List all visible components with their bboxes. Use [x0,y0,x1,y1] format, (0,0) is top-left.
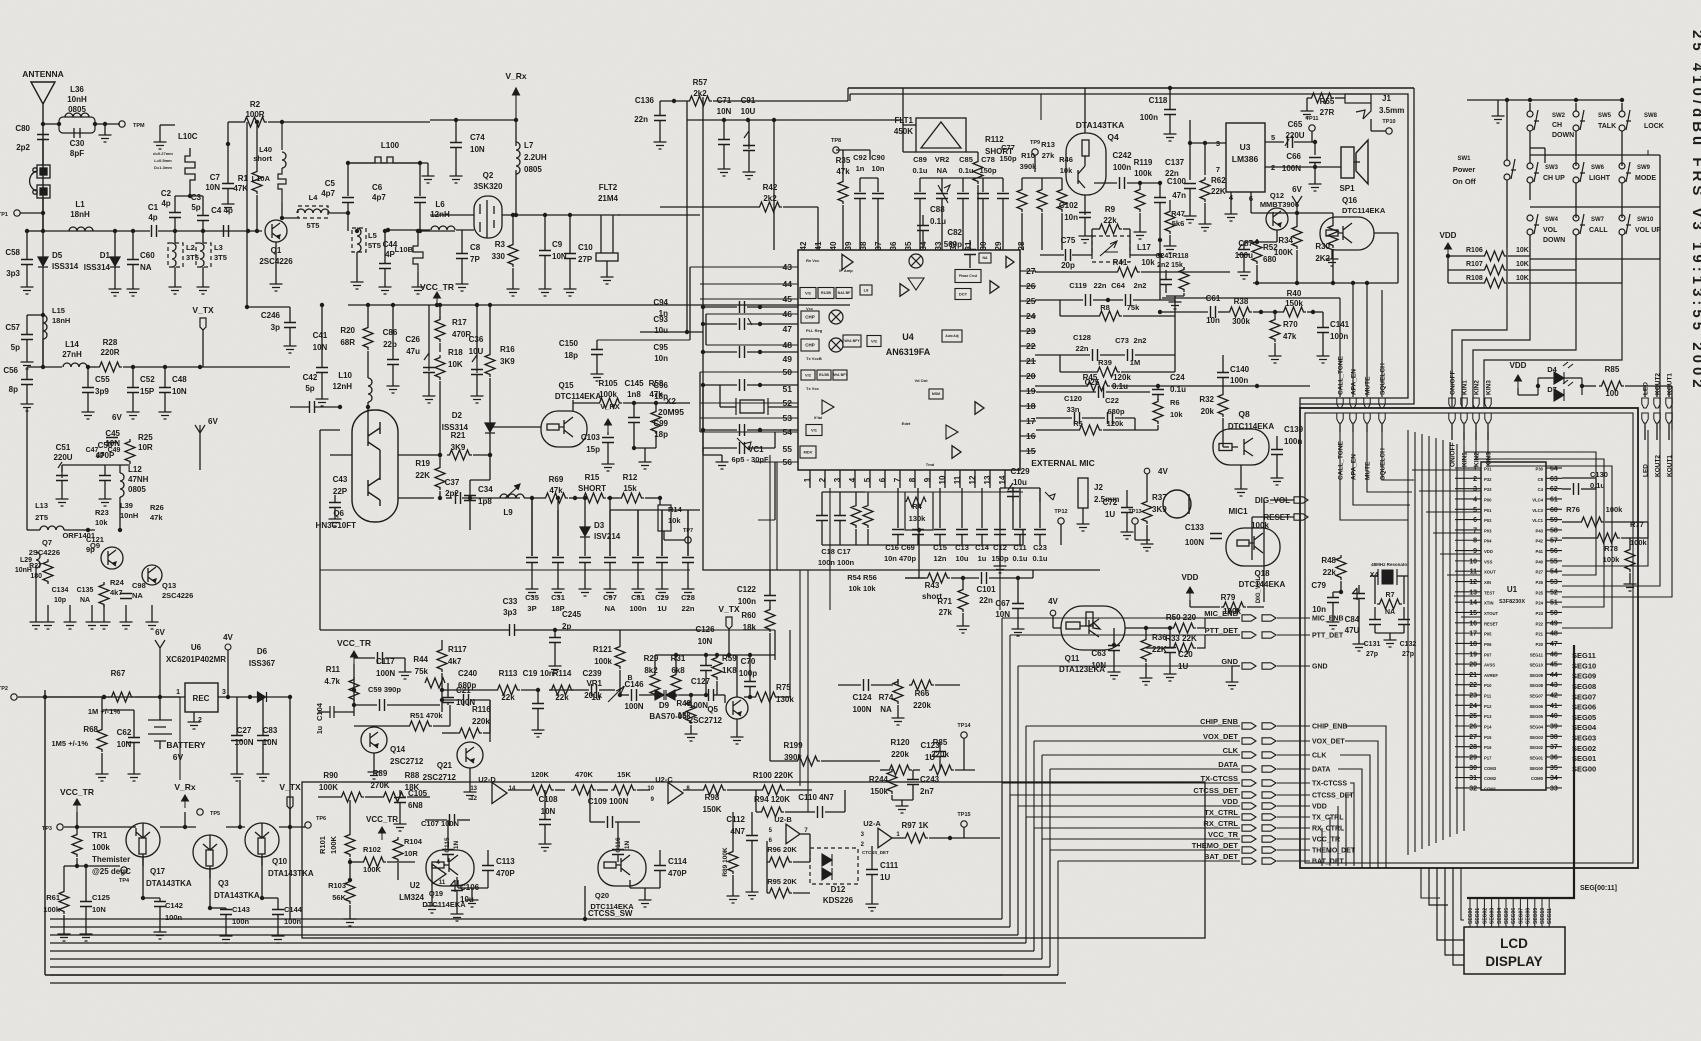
wire riser [1041,839,1043,959]
svg-text:6k8: 6k8 [671,666,685,675]
svg-text:P11: P11 [1484,694,1492,699]
wire [700,417,798,419]
wire [554,630,556,637]
wire [963,827,965,838]
resistor R244 [887,769,897,794]
svg-text:C143: C143 [232,905,250,914]
svg-text:100n: 100n [1330,332,1348,341]
svg-text:680p: 680p [458,681,476,690]
svg-text:C97: C97 [603,593,617,602]
transistor Q19 [426,850,474,886]
wire bundle [1442,440,1444,840]
svg-text:SEG01: SEG01 [1572,754,1596,763]
wire [1190,606,1220,608]
wire [654,694,656,696]
svg-text:57: 57 [1550,538,1558,545]
wire [87,367,89,387]
capacitor C101 [982,572,987,584]
svg-text:50: 50 [1550,610,1558,617]
svg-text:R114: R114 [553,669,572,678]
wire [42,283,44,365]
wire [1455,653,1481,655]
capacitor C83 [257,736,269,741]
svg-text:LM324: LM324 [399,893,424,902]
capacitor C79 [1327,598,1339,603]
wire [1529,235,1531,252]
svg-text:Q15: Q15 [558,381,574,390]
wire [1659,155,1661,259]
svg-text:SEG11: SEG11 [1530,652,1544,657]
amp tri [908,278,924,290]
wire [43,230,150,232]
svg-text:C28: C28 [681,593,695,602]
wire top bus [848,87,1414,89]
wire [962,613,964,622]
wire [128,826,136,828]
resistor R95 [767,888,792,898]
wire [797,313,799,315]
svg-text:100k: 100k [594,657,612,666]
svg-text:10R: 10R [138,443,153,452]
wire [1082,417,1105,419]
wire [1332,213,1334,223]
wire [716,654,718,656]
wire [1455,715,1481,717]
svg-text:19: 19 [1469,651,1477,658]
wire [69,605,71,618]
wire [1332,592,1334,597]
capacitor C35 [526,558,538,563]
resistor R58 [651,409,661,434]
wire signal [1058,860,1240,862]
connector VDD [1242,803,1256,809]
wire [703,447,737,449]
wire [1251,212,1277,214]
svg-text:2p2: 2p2 [445,489,459,498]
wire [1537,385,1539,387]
wire [349,858,351,880]
ground [1327,618,1340,629]
svg-text:10u: 10u [1013,478,1027,487]
resistor R57 [687,96,712,106]
wire SEG drop [1483,898,1485,927]
connector KIN1 [1461,398,1467,408]
wire [135,696,185,698]
svg-text:SEG05: SEG05 [1529,714,1543,719]
svg-text:C243: C243 [920,775,940,784]
wire [334,495,336,502]
wire [989,577,1033,579]
wire [609,563,611,585]
svg-text:SEG01: SEG01 [1529,755,1543,760]
wire [1277,768,1310,770]
wire [1053,627,1061,629]
wire [490,426,541,428]
svg-text:10k 10k: 10k 10k [848,584,876,593]
wire bundle [1428,436,1430,846]
capacitor C37 [456,492,461,504]
wire [675,694,677,696]
ground [379,283,392,294]
wire [1218,311,1227,313]
wire [508,789,529,791]
wire [1307,97,1309,99]
wire [367,402,369,430]
wire [1546,539,1562,541]
ground [220,932,233,943]
svg-text:GND: GND [1312,664,1328,671]
svg-text:Q3: Q3 [218,879,229,888]
switch SW3 [1527,162,1539,183]
svg-text:C90: C90 [871,153,885,162]
wire [1022,177,1062,179]
svg-text:C81: C81 [631,593,645,602]
svg-text:L10B: L10B [395,245,414,254]
wire signal [1018,665,1240,667]
svg-text:L6: L6 [435,200,445,209]
wire [1059,355,1061,372]
svg-text:C124: C124 [852,693,872,702]
wire [999,545,1001,562]
wire [610,789,612,791]
svg-text:R1/2B: R1/2B [821,291,831,295]
svg-text:100n: 100n [629,604,647,613]
wire [1546,570,1562,572]
svg-text:SW8: SW8 [1644,113,1658,119]
wire [1189,120,1191,143]
svg-text:LOCK: LOCK [1644,123,1664,130]
wire [659,850,661,865]
svg-text:P43: P43 [1536,528,1544,533]
connector CALL_TONE [1337,398,1343,408]
capacitor C19 [532,704,544,709]
svg-text:R107: R107 [1466,261,1483,268]
svg-text:Rx Vcc: Rx Vcc [806,258,820,263]
capacitor C116 [612,850,624,855]
wire [640,331,703,333]
svg-text:120k: 120k [1113,373,1131,382]
wire [1000,487,1040,489]
ground [1271,474,1284,485]
wire [549,689,575,691]
resistor R101 [345,832,355,857]
regulator U6 REC [185,683,218,712]
svg-text:P26: P26 [1536,580,1544,585]
transistor Q9 [101,547,123,569]
wire [286,230,288,232]
wire [1231,666,1233,678]
wire [87,393,89,408]
wire [1247,606,1264,608]
wire [26,408,28,530]
inductor L3 [196,243,211,267]
svg-text:PTT_DET: PTT_DET [1205,626,1239,635]
wire [164,393,166,408]
wire [766,841,768,862]
svg-text:C144: C144 [284,905,303,914]
svg-text:100k: 100k [1603,555,1621,564]
wire [821,760,880,762]
connector CTCSS_DET mate [1262,792,1276,798]
wire [747,429,798,431]
svg-text:P01: P01 [1484,508,1492,513]
wire [447,855,449,862]
svg-text:1u: 1u [978,554,987,563]
wire [1455,550,1481,552]
capacitor C124 [864,679,869,691]
wire [822,491,865,493]
wire [754,461,798,463]
wire [955,769,975,771]
svg-text:36: 36 [1550,754,1558,761]
wire [26,315,28,334]
svg-text:C84: C84 [1345,615,1360,624]
svg-text:27k: 27k [939,608,953,617]
wire DATA route [1338,769,1362,868]
svg-text:C75: C75 [1061,236,1076,245]
svg-text:CTCSS_DET: CTCSS_DET [1193,786,1238,795]
wire [104,465,106,475]
connector PTT_DET [1242,632,1256,638]
wire [102,709,134,711]
wire [1529,103,1531,111]
svg-text:6V: 6V [208,417,218,426]
wire [18,696,45,698]
wire [944,470,946,488]
svg-text:P23: P23 [1536,611,1544,616]
wire [1487,423,1489,440]
svg-text:P05: P05 [1484,632,1492,637]
ground [549,662,562,673]
wire [159,124,161,126]
svg-text:L14: L14 [65,340,79,349]
resistor R35 [838,179,848,204]
svg-text:3p9: 3p9 [95,387,109,396]
resistor R85 [1599,381,1624,391]
svg-text:U2-A: U2-A [863,819,881,828]
wire [512,268,514,285]
wire [1139,213,1141,228]
wire [1135,354,1175,356]
svg-text:SEG[00:11]: SEG[00:11] [1580,885,1617,892]
ground [387,382,400,393]
connector MIC_ENB [1242,615,1256,621]
inductor L4 [298,206,328,218]
capacitor C123 [934,752,946,757]
capacitor [914,194,926,199]
svg-text:C51: C51 [56,443,71,452]
wire [356,252,358,278]
resistor R77 [1595,533,1620,543]
ground [866,900,879,911]
power arrow VCC_TR4 [351,651,358,664]
svg-text:XTIN: XTIN [1484,601,1494,606]
capacitor C25 [1099,386,1104,398]
capacitor C24 [1152,390,1164,395]
svg-text:R96 20K: R96 20K [767,845,797,854]
wire [469,501,471,530]
svg-text:MDV: MDV [804,449,813,454]
wire [1020,435,1036,437]
svg-text:VDD: VDD [1222,797,1238,806]
wire [869,150,871,160]
wire [941,178,943,192]
svg-text:C16 C69: C16 C69 [885,543,915,552]
wire [629,880,631,888]
test point TP9 [1032,149,1038,155]
svg-text:22k: 22k [1323,568,1337,577]
wire [20,212,43,214]
wire [690,725,692,730]
svg-text:34: 34 [1550,775,1558,782]
wire [903,124,916,126]
wire [45,696,180,698]
wire [189,190,191,196]
svg-text:4p: 4p [161,199,170,208]
capacitor [579,558,591,563]
svg-text:J2: J2 [1094,483,1103,492]
wire [1204,203,1206,220]
svg-text:d=0.27mm: d=0.27mm [153,151,173,156]
capacitor C30 [74,128,80,138]
wire [347,203,349,213]
svg-text:42: 42 [1550,693,1558,700]
wire [557,563,559,585]
capacitor C43 [329,503,341,508]
capacitor [1034,530,1046,535]
svg-text:L29: L29 [20,557,32,564]
svg-text:10k: 10k [1141,258,1155,267]
svg-text:VCC_TR: VCC_TR [60,787,94,797]
wire [1455,622,1481,624]
wire [350,861,361,863]
switch SW1 [1504,159,1516,180]
wire [1403,576,1405,604]
inductor L100 [368,157,400,163]
capacitor C48 [159,388,171,393]
svg-text:APA_EN: APA_EN [1351,369,1358,395]
switch SW9 [1619,162,1631,183]
wire VOX_DET route [1345,741,1378,868]
svg-text:SW10: SW10 [1637,217,1654,223]
power arrow V_Rx [513,88,520,120]
capacitor C52 [127,388,139,393]
resistor R28 [97,362,122,372]
wire [119,465,121,473]
wire [489,455,491,480]
svg-text:C99: C99 [653,419,668,428]
capacitor C139 [1271,450,1283,455]
svg-text:CH UP: CH UP [1543,175,1565,182]
svg-text:C114: C114 [668,857,687,866]
test point TP15 [961,821,967,827]
connector PTT_DET mate [1262,632,1276,638]
svg-text:C108: C108 [538,795,558,804]
wire [1546,787,1562,789]
mixer M2 [829,310,843,324]
svg-text:C118: C118 [1149,96,1168,105]
wire [1169,115,1171,130]
ground [994,562,1007,573]
wire [441,640,443,647]
filter FLT2 [596,215,618,273]
wire [905,577,925,579]
svg-text:C88: C88 [930,205,945,214]
switch SW5 [1573,110,1585,131]
wire [1371,130,1386,132]
svg-text:33: 33 [1550,785,1558,792]
svg-text:AVREF: AVREF [1484,673,1498,678]
svg-text:100N: 100N [1185,538,1204,547]
svg-text:47: 47 [1550,641,1558,648]
block CHP [801,311,819,323]
svg-text:100n: 100n [165,913,183,922]
LED D4 [1538,378,1582,395]
connector VOX_DET [1242,738,1256,744]
wire [1002,199,1004,250]
wire [1060,524,1062,545]
capacitor C58 [21,260,33,265]
wire [544,256,546,285]
wire [447,820,449,849]
svg-text:18p: 18p [654,430,668,439]
wire [838,684,861,686]
wire [515,170,517,200]
wire [199,433,201,470]
wire VTX rail [655,654,775,656]
resistor R117 [437,647,447,672]
svg-text:C18 C17: C18 C17 [821,547,851,556]
power 6V [195,425,205,433]
connector MUTE mate [1364,413,1370,423]
wire [439,305,441,318]
wire [1668,423,1670,440]
svg-text:R43: R43 [925,581,940,590]
resistor R89 [728,849,738,874]
wire [76,858,78,866]
wire [607,497,619,499]
wire [1529,252,1531,256]
svg-text:R3: R3 [495,240,506,249]
ground [1326,255,1339,266]
capacitor C61 [1211,306,1216,318]
wire [1222,390,1224,392]
svg-text:C47: C47 [86,447,99,454]
svg-text:P07: P07 [1484,652,1492,657]
ground [1169,298,1182,309]
ground [656,585,669,596]
svg-text:47: 47 [783,324,793,334]
svg-text:R48: R48 [1321,556,1336,565]
wire [1159,183,1161,197]
wire [1455,477,1481,479]
svg-text:V/2: V/2 [805,372,812,377]
wire [706,344,798,346]
svg-text:100N: 100N [852,705,871,714]
wire [246,122,248,307]
connector APA_EN [1350,398,1356,408]
test point TP7 [685,537,691,543]
wire [1296,250,1298,283]
resistor R21 [447,450,472,460]
ground [1238,268,1251,279]
wire [1546,746,1562,748]
svg-text:ISS314: ISS314 [442,423,469,432]
wire [442,699,461,701]
wire [487,850,489,865]
svg-text:C19: C19 [523,669,538,678]
svg-text:DCT: DCT [959,291,968,296]
